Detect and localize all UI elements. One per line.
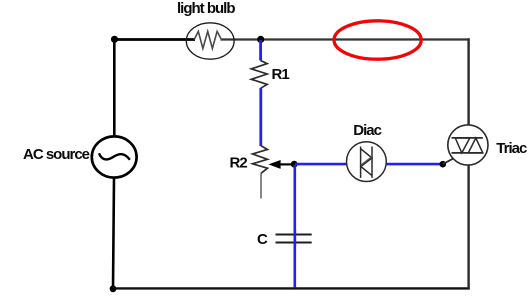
capacitor C plate top (276, 234, 312, 236)
node R1 top junction (257, 36, 264, 43)
wire blue R1 to R2 (259, 88, 262, 146)
light bulb circle (186, 23, 234, 59)
svg-text:Triac: Triac (496, 140, 527, 157)
triac bottom rail (452, 152, 483, 154)
wire blue R1 top lead (259, 40, 262, 61)
wire top-left horizontal (113, 38, 195, 41)
wire right vertical upper (467, 38, 469, 126)
red highlight ellipse (334, 21, 421, 59)
diac doubled middle edge (361, 157, 372, 166)
node wiper junction (291, 161, 298, 168)
wire right vertical lower (467, 164, 469, 289)
light bulb filament zigzag (194, 31, 221, 48)
svg-text:light bulb: light bulb (177, 0, 235, 17)
wire left vertical upper (113, 39, 116, 138)
AC source sine wave (99, 153, 130, 160)
R2 bottom stub (260, 173, 262, 198)
wire top-right horizontal (221, 38, 470, 40)
wire blue junction to diac (295, 163, 347, 166)
AC source circle (92, 136, 137, 177)
wire blue junction down to capacitor (293, 165, 296, 288)
triac left triangle (455, 138, 470, 153)
diac triangles zigzag (361, 149, 372, 176)
triac circle Q1 (448, 125, 488, 165)
diac left bar (360, 147, 362, 178)
diac circle U1 (347, 142, 387, 182)
svg-text:C: C (257, 231, 268, 248)
potentiometer R2 (253, 146, 268, 174)
node bottom-left junction (110, 285, 117, 292)
R2 wiper arrow shaft (279, 163, 294, 165)
triac gate lead (443, 158, 455, 165)
wire bottom horizontal (113, 287, 470, 289)
capacitor C plate bottom (276, 242, 312, 244)
wire blue diac to gate (386, 163, 440, 166)
svg-text:Diac: Diac (353, 122, 381, 139)
resistor R1 (251, 61, 267, 89)
triac right triangle (468, 138, 483, 153)
node gate junction (440, 161, 447, 168)
wire blue over capacitor (293, 230, 296, 247)
diac right bar (371, 147, 373, 178)
svg-text:R2: R2 (230, 155, 248, 172)
svg-text:AC source: AC source (23, 146, 90, 163)
wire left vertical lower (113, 178, 114, 290)
node top-left junction (111, 36, 118, 43)
triac top rail (452, 137, 483, 139)
R2 wiper arrowhead (268, 160, 280, 169)
svg-text:R1: R1 (272, 66, 290, 83)
